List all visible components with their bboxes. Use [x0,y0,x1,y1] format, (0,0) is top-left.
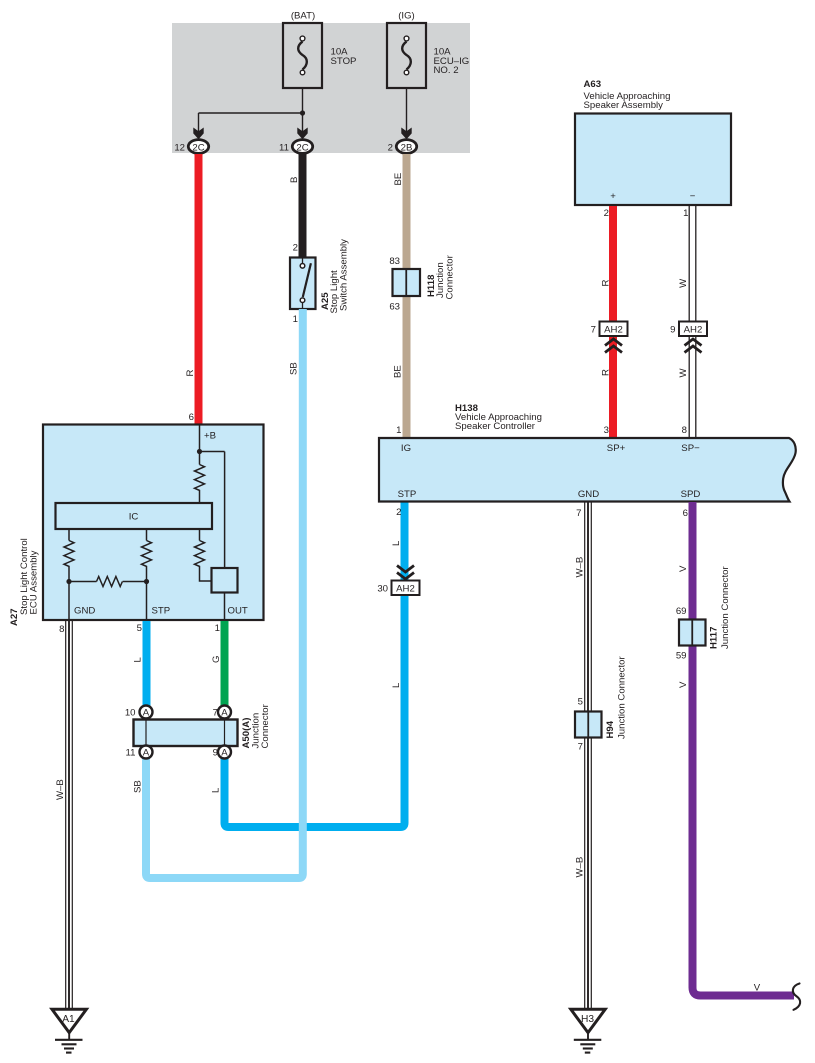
svg-text:H3: H3 [581,1014,594,1025]
svg-text:12: 12 [174,143,185,154]
svg-text:2: 2 [388,143,393,154]
svg-text:OUT: OUT [228,606,248,617]
svg-text:SB: SB [289,362,300,375]
svg-text:2: 2 [604,208,609,219]
wire L (blue) A27 STP to A50 pin 10 [133,621,147,712]
svg-text:83: 83 [389,256,400,267]
stop light switch A25 [290,239,350,325]
svg-text:8: 8 [59,624,64,635]
A27 pin labels [59,606,248,636]
inline connector 30 AH2 on STP wire [377,566,419,596]
svg-text:9: 9 [670,325,675,336]
svg-text:BE: BE [393,173,404,186]
svg-text:11: 11 [279,143,289,154]
svg-text:V: V [678,565,689,572]
svg-text:1: 1 [215,623,220,634]
svg-text:R: R [601,280,612,287]
resistor between GND and STP nodes [69,577,147,587]
svg-text:A: A [221,708,228,719]
svg-text:AH2: AH2 [396,584,415,595]
svg-text:H117: H117 [709,627,720,649]
svg-text:Connector: Connector [260,703,271,748]
svg-text:10: 10 [125,708,136,719]
svg-text:STP: STP [398,489,417,500]
svg-text:2: 2 [396,507,401,518]
svg-text:Speaker Assembly: Speaker Assembly [584,100,664,111]
vehicle approaching speaker assembly A63 [575,79,731,205]
svg-text:A: A [143,748,150,759]
svg-text:Switch Assembly: Switch Assembly [339,239,350,311]
svg-text:IG: IG [401,443,411,454]
svg-text:(IG): (IG) [398,10,415,21]
svg-text:H94: H94 [605,720,616,738]
svg-text:A63: A63 [584,79,602,90]
inline connector 9 AH2 [670,322,707,353]
svg-text:−: − [690,191,696,202]
svg-text:63: 63 [389,302,400,313]
svg-text:2B: 2B [401,143,413,154]
svg-text:NO. 2: NO. 2 [434,65,459,76]
svg-text:V: V [754,983,761,994]
svg-text:3: 3 [604,425,609,436]
svg-text:V: V [678,681,689,688]
svg-text:11: 11 [126,748,136,759]
svg-text:59: 59 [676,651,687,662]
stop light control ECU assembly A27 [9,425,264,627]
svg-text:+: + [610,191,616,202]
svg-text:30: 30 [377,584,388,595]
resistor IC to GND leg [64,529,74,620]
svg-text:A: A [221,748,228,759]
ground H3 [571,1009,605,1052]
svg-text:W: W [678,368,689,378]
svg-text:W–B: W–B [575,857,586,878]
vehicle approaching speaker controller H138 [379,403,796,502]
wire G (green) A27 OUT to A50 pin 7 [211,621,225,712]
wire B (black) fuse block to A25 [289,154,303,257]
svg-text:7: 7 [213,708,218,719]
svg-text:Junction Connector: Junction Connector [617,656,628,739]
resistor pull-up (+B to IC) [195,465,205,504]
svg-text:SB: SB [133,780,144,793]
junction block (gray fuse block area) [172,23,470,153]
pin 2 connector 2B [388,128,417,154]
junction connector H94 [575,656,628,753]
svg-text:L: L [133,657,144,663]
fuse STOP (BAT) [283,10,356,88]
wire output driver to OUT pin [224,593,226,621]
junction connector A50(A) [125,703,271,758]
svg-text:SP−: SP− [681,443,700,454]
svg-text:1: 1 [396,425,401,436]
wire W-B A27 GND to ground A1 [55,621,72,1008]
svg-text:7: 7 [576,508,581,519]
junction connector H118 [393,254,456,299]
junction connector H117 [679,566,731,649]
svg-text:1: 1 [293,314,298,325]
svg-text:(BAT): (BAT) [291,10,315,21]
svg-text:9: 9 [213,748,218,759]
A27 output driver block [212,568,238,593]
wire V (violet) H138 SPD to right edge [676,502,794,996]
svg-text:2C: 2C [192,143,204,154]
svg-text:GND: GND [74,606,95,617]
svg-text:A: A [143,708,150,719]
svg-text:R: R [185,370,196,377]
svg-text:6: 6 [189,412,194,423]
svg-text:ECU Assembly: ECU Assembly [29,550,40,614]
svg-text:R: R [601,369,612,376]
svg-text:7: 7 [591,325,596,336]
wire L (blue) A50 pin 9 to H138 STP [210,502,404,827]
svg-text:SPD: SPD [681,489,701,500]
wire BE (beige) fuse block to H138 IG [389,154,406,438]
wire: fuse STOP output distribution [199,75,407,133]
fuse ECU-IG NO.2 (IG) [387,10,469,88]
svg-text:Junction Connector: Junction Connector [720,566,731,649]
wire break squiggle [793,984,800,1010]
svg-text:AH2: AH2 [604,325,623,336]
inline connector 7 AH2 [591,322,628,353]
svg-text:69: 69 [676,606,687,617]
svg-text:BE: BE [393,365,404,378]
svg-text:W: W [678,278,689,288]
svg-text:L: L [391,682,402,688]
wire W (white) A63 to H138 SP- [678,206,696,438]
A27 internal junction dots [197,449,202,454]
wire SB (sky blue) A25 to A50 pin 11 [133,309,303,878]
svg-text:5: 5 [137,623,142,634]
svg-text:+B: +B [204,430,216,441]
resistor IC to output driver [195,529,212,581]
A27 IC block [56,503,213,529]
svg-text:1: 1 [683,208,688,219]
svg-text:Speaker Controller: Speaker Controller [455,421,536,432]
svg-text:G: G [211,656,222,663]
pin 12 connector 2C [174,128,208,154]
svg-text:B: B [289,177,300,183]
svg-text:L: L [210,787,221,793]
svg-text:W–B: W–B [575,557,586,578]
wire A27 +B internal node [200,425,225,568]
ground A1 [52,1009,86,1052]
pin 11 connector 2C [279,128,313,154]
svg-text:STP: STP [152,606,171,617]
junction dot [300,110,305,115]
svg-text:SP+: SP+ [607,443,626,454]
svg-text:W–B: W–B [55,779,66,800]
svg-text:STOP: STOP [331,56,357,67]
svg-text:5: 5 [578,697,583,708]
svg-text:GND: GND [578,489,599,500]
svg-text:8: 8 [682,425,687,436]
svg-text:2: 2 [293,243,298,254]
svg-text:AH2: AH2 [684,325,703,336]
wire R (red) fuse block to A27 +B [185,154,198,425]
svg-text:7: 7 [578,742,583,753]
svg-text:Connector: Connector [445,254,456,299]
svg-text:A1: A1 [62,1014,75,1025]
svg-text:IC: IC [129,512,139,523]
resistor IC to STP leg [142,529,152,620]
wire R (red) A63 to H138 SP+ [601,206,614,438]
wire W-B H138 GND to ground H3 [575,502,592,1008]
svg-text:6: 6 [683,508,688,519]
svg-text:2C: 2C [296,143,308,154]
svg-text:L: L [391,540,402,546]
